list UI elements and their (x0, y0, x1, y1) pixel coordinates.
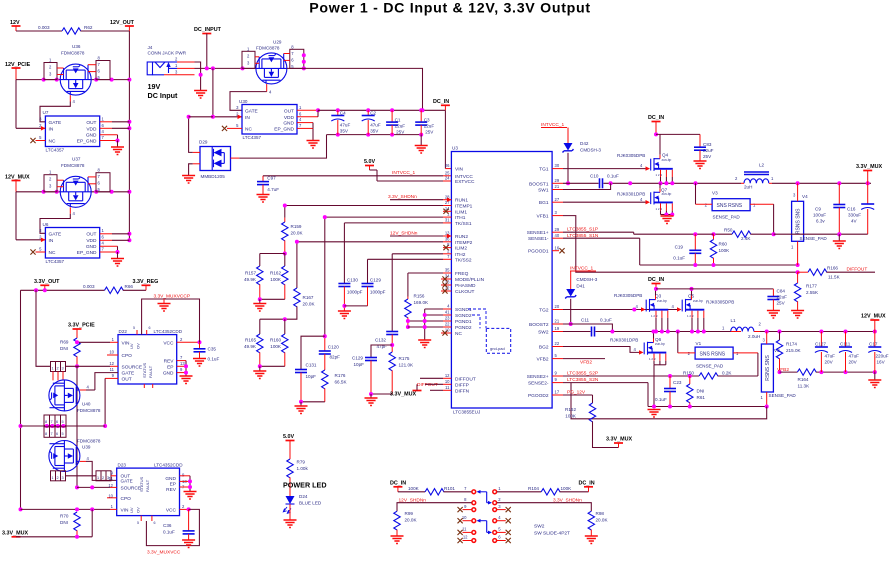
svg-text:6: 6 (56, 432, 58, 436)
ground SGND (418, 340, 431, 348)
LED D24 BLUE LED (283, 494, 322, 520)
svg-text:3.3V_OUT: 3.3V_OUT (34, 279, 60, 285)
svg-text:C3: C3 (424, 117, 430, 122)
ground on MUXVCCP wire (158, 299, 171, 311)
wire BOOST2 (563, 324, 612, 332)
svg-text:2: 2 (57, 367, 59, 371)
svg-text:ITH2: ITH2 (455, 252, 466, 258)
wire ITEMP2 from R167 (297, 241, 443, 243)
resistor R166 11.5K (798, 266, 875, 280)
svg-text:25V: 25V (396, 129, 405, 134)
svg-text:20.0K: 20.0K (291, 231, 304, 236)
svg-text:31: 31 (445, 218, 450, 223)
svg-text:SENSE_PAD: SENSE_PAD (769, 393, 797, 398)
svg-text:C16: C16 (847, 207, 856, 212)
wire R165/R160 bottoms / ground (253, 364, 285, 378)
svg-text:23: 23 (445, 316, 450, 321)
U3 right pin numbers (555, 163, 560, 394)
wire SOURCE row D23 (77, 485, 117, 489)
wire U29 drain to caps bus (287, 68, 423, 110)
U30 NC no-connect (222, 126, 242, 131)
ground U6 (111, 252, 124, 266)
svg-text:UV: UV (129, 507, 134, 513)
capacitor C2 47uF 35V (362, 110, 381, 134)
wire D29 lower to ground (189, 164, 200, 176)
svg-text:12V_SHDNn: 12V_SHDNn (390, 231, 418, 237)
wire to C83 (656, 133, 700, 135)
svg-text:20: 20 (555, 304, 560, 309)
svg-text:D29: D29 (199, 140, 208, 145)
svg-text:82pF: 82pF (330, 355, 341, 360)
power flag 5.0V (364, 159, 377, 181)
resistor R167 20.0K (285, 240, 316, 319)
wire DC_IN to U3 VIN (445, 110, 451, 168)
svg-text:LTC4352CDD: LTC4352CDD (154, 463, 183, 468)
power flag 12V_PCIE (5, 62, 31, 80)
svg-text:RSNS SNS: RSNS SNS (795, 208, 801, 234)
svg-text:3.3V_REG: 3.3V_REG (133, 279, 159, 285)
svg-text:TG2: TG2 (539, 308, 549, 314)
svg-text:R104: R104 (528, 486, 539, 491)
wire caps bottom bus (327, 134, 422, 136)
svg-text:PGOOD1: PGOOD1 (528, 249, 549, 255)
capacitor C120 82pF + R176 column (319, 215, 348, 402)
wire SW node (604, 182, 742, 184)
svg-text:C10: C10 (590, 174, 599, 179)
svg-text:100K: 100K (565, 414, 577, 419)
svg-text:SNS RSNS: SNS RSNS (700, 352, 726, 358)
capacitor C129 10pF (352, 345, 392, 394)
node VFB2 left (563, 359, 605, 366)
svg-text:35V: 35V (370, 129, 379, 134)
svg-text:12: 12 (109, 361, 114, 366)
wire TK/SS1 from C130 (344, 222, 443, 224)
svg-text:5.0V: 5.0V (283, 434, 294, 440)
svg-text:EP: EP (167, 364, 173, 370)
svg-text:41: 41 (445, 310, 450, 315)
wire U30 VDD (297, 110, 318, 117)
svg-text:35V: 35V (340, 129, 349, 134)
node LTC3855_S1P (563, 227, 634, 235)
svg-text:RUN1: RUN1 (455, 198, 468, 204)
svg-text:1: 1 (97, 476, 99, 480)
capacitor C132 47pF + R175 column (375, 254, 414, 394)
svg-text:VDD: VDD (86, 238, 97, 244)
U7 NC no-connect (30, 138, 45, 143)
svg-text:20.0K: 20.0K (596, 518, 609, 523)
resistor R150 0.2K (683, 353, 758, 379)
wire ladder vertical B (36, 290, 51, 366)
node DIFFOUT (417, 378, 443, 388)
wire BG1 to Q7 gate (563, 201, 646, 203)
svg-text:SENSE_PAD: SENSE_PAD (713, 215, 741, 220)
transistor Q5 RJK0305DPB (672, 287, 735, 334)
no-connect X on unused contacts (458, 507, 511, 543)
svg-text:19: 19 (555, 326, 560, 331)
svg-text:J4: J4 (148, 45, 153, 50)
capacitor C128 1000pF (344, 259, 385, 306)
svg-text:U29: U29 (273, 40, 282, 45)
svg-text:17: 17 (555, 390, 560, 395)
svg-text:22: 22 (555, 341, 560, 346)
svg-text:U36: U36 (72, 44, 81, 49)
wire bottom bus / ground (295, 400, 325, 414)
capacitor C11 0.1uF (581, 318, 612, 337)
svg-text:169.0K: 169.0K (414, 300, 429, 305)
svg-text:LTC3855_S1P: LTC3855_S1P (567, 227, 598, 233)
svg-text:DIFFN: DIFFN (455, 388, 470, 394)
resistor R156 169.0K (405, 273, 429, 329)
svg-text:4.7uF: 4.7uF (267, 187, 279, 192)
capacitor C97 4.7uF (257, 176, 279, 195)
svg-text:2.4K: 2.4K (741, 236, 751, 241)
capacitor C16 330uF 4V (847, 183, 874, 234)
svg-text:FDMC8878: FDMC8878 (61, 163, 85, 168)
svg-text:3.3V_MUX: 3.3V_MUX (856, 164, 882, 170)
svg-text:100K: 100K (561, 486, 573, 491)
power flag 5.0V LED (283, 434, 295, 459)
svg-text:GATE: GATE (245, 108, 258, 114)
svg-text:22: 22 (445, 322, 450, 327)
svg-text:NC: NC (49, 250, 56, 256)
node VFB2 right (777, 367, 789, 373)
wire V3 pin1 down (773, 204, 775, 234)
node dots on 12V_OUT vertical (127, 78, 131, 82)
svg-text:GND: GND (163, 371, 174, 377)
svg-text:GND: GND (165, 476, 176, 482)
resistor R174 215.0K (776, 332, 801, 375)
U40 drain pin box 8,7,6,5 (44, 415, 66, 426)
svg-text:C11: C11 (581, 318, 590, 323)
inductor L1 2.0uH (722, 318, 762, 339)
svg-text:IN: IN (245, 115, 250, 121)
wire to U30 IN (211, 68, 242, 119)
svg-text:3.3V_MUX: 3.3V_MUX (390, 392, 416, 398)
svg-text:C35: C35 (208, 347, 217, 352)
svg-text:DC_IN: DC_IN (648, 277, 664, 283)
svg-text:C23: C23 (673, 380, 682, 385)
svg-text:TK/SS2: TK/SS2 (455, 257, 472, 263)
power flag 12V (10, 20, 21, 31)
svg-text:U37: U37 (72, 157, 81, 162)
svg-text:R165: R165 (245, 338, 256, 343)
capacitor C83 22uF 25V (694, 134, 714, 168)
transistor U40 FDMC8878 (49, 380, 101, 413)
svg-text:11: 11 (109, 476, 114, 481)
svg-text:FREQ: FREQ (455, 271, 469, 277)
svg-text:C130: C130 (347, 278, 358, 283)
wire D23 REV/EP/GND tie (180, 476, 197, 499)
svg-text:66.5K: 66.5K (335, 380, 348, 385)
svg-text:12: 12 (445, 373, 450, 378)
svg-text:R150: R150 (683, 370, 694, 375)
wire DIFFN (430, 389, 443, 391)
resistor R99 20.0K (391, 511, 418, 543)
node 12V_SHDNn / wire RUN2 (390, 231, 451, 239)
svg-text:DIFFOUT: DIFFOUT (847, 267, 868, 273)
svg-text:VCC: VCC (163, 340, 174, 346)
op-amp U30 LTC4357 (236, 99, 302, 140)
svg-text:MMBD1205: MMBD1205 (201, 174, 226, 179)
svg-text:U6: U6 (43, 222, 49, 227)
power flag 3.3V_MUX at DIFFP (390, 384, 422, 397)
svg-text:21: 21 (555, 319, 560, 324)
svg-text:FAULT: FAULT (145, 479, 150, 492)
svg-text:CONN JACK PWR: CONN JACK PWR (148, 51, 187, 56)
wire R69 col down (76, 366, 78, 487)
svg-text:MODE/PLLIN: MODE/PLLIN (455, 277, 485, 283)
svg-text:CPO: CPO (122, 353, 133, 359)
svg-text:FDMC8878: FDMC8878 (61, 51, 85, 56)
svg-text:LTC3855_S1N: LTC3855_S1N (567, 233, 599, 239)
U3 left pin names (455, 167, 485, 395)
wire U37 gate to U6 (40, 214, 70, 234)
svg-text:R157: R157 (245, 271, 256, 276)
ground LED (284, 520, 297, 528)
svg-text:VCC: VCC (166, 507, 177, 513)
capacitor C17 220uF 16V (868, 332, 888, 373)
svg-text:SENSE_PAD: SENSE_PAD (800, 236, 828, 241)
wire BG2 to Q6 gate (563, 347, 639, 353)
svg-text:11: 11 (462, 527, 467, 532)
svg-text:R79: R79 (297, 460, 306, 465)
svg-text:C129: C129 (370, 278, 381, 283)
svg-text:16V: 16V (877, 360, 886, 365)
svg-text:29: 29 (555, 227, 560, 232)
wire SW to L2 (694, 181, 698, 185)
svg-text:C84: C84 (777, 289, 786, 294)
wire D29 anode up to IN node (187, 115, 213, 153)
svg-text:47uF: 47uF (370, 123, 381, 128)
svg-text:TG1: TG1 (539, 167, 549, 173)
U3 left pin numbers (445, 163, 450, 390)
svg-text:EP_GND: EP_GND (77, 138, 97, 144)
svg-text:L1: L1 (731, 318, 737, 323)
wire OUT row D23 (66, 475, 97, 477)
capacitor C4 47uF 35V (331, 110, 350, 134)
U36 pin box right 8,7,6,5 (88, 56, 110, 81)
wire SW2 node to V1 (677, 332, 679, 353)
svg-text:7: 7 (51, 420, 53, 424)
svg-text:STATUS: STATUS (142, 362, 147, 378)
svg-text:SENSE2-: SENSE2- (528, 381, 549, 387)
svg-text:12V_PCIE: 12V_PCIE (5, 62, 31, 68)
op-amp U7 LTC4357 (39, 110, 104, 153)
svg-text:PGND2: PGND2 (455, 325, 472, 331)
svg-text:4V: 4V (851, 219, 858, 224)
svg-text:GATE: GATE (49, 231, 62, 237)
U3 left pin stubs (441, 200, 451, 391)
transistor Q3 RJK0305DPB (614, 289, 670, 334)
resistor R62 0.003 (38, 25, 93, 34)
svg-text:RJK0305DPB: RJK0305DPB (706, 300, 734, 305)
ground jack (194, 91, 207, 99)
svg-text:POWER LED: POWER LED (283, 481, 327, 490)
svg-text:DC_IN: DC_IN (579, 481, 595, 487)
svg-text:12V_MUX: 12V_MUX (5, 175, 30, 181)
ground D29 (182, 176, 195, 184)
wire REV/EP/GND tie (177, 361, 193, 384)
svg-text:SW2: SW2 (538, 330, 549, 336)
svg-text:0.1uF: 0.1uF (600, 318, 612, 323)
svg-text:R166: R166 (827, 266, 838, 271)
U6 NC no-connect (30, 249, 45, 254)
svg-text:RJK0301DPB: RJK0301DPB (617, 192, 645, 197)
svg-text:SW1: SW1 (538, 188, 549, 194)
wire TG2 to Q3/Q5 gates (563, 309, 677, 311)
svg-text:BLUE LED: BLUE LED (299, 501, 322, 506)
svg-text:0.1uF: 0.1uF (163, 530, 175, 535)
svg-text:C19: C19 (675, 245, 684, 250)
wire sense2 bus (648, 405, 769, 409)
transistor U36 FDMC8878 (60, 44, 91, 95)
svg-text:R160: R160 (270, 338, 281, 343)
svg-text:LTC4357: LTC4357 (46, 259, 65, 264)
svg-text:DC_IN: DC_IN (390, 481, 406, 487)
svg-text:CMDSH-3: CMDSH-3 (576, 277, 597, 282)
U39 source pin box 1,2,3 (51, 471, 66, 481)
svg-text:REV: REV (166, 487, 177, 493)
svg-text:VIN: VIN (455, 167, 464, 173)
svg-text:NC: NC (49, 138, 56, 144)
connector J4 CONN JACK PWR (147, 45, 194, 75)
svg-text:CMDSH-3: CMDSH-3 (580, 148, 601, 153)
svg-text:R98: R98 (596, 511, 605, 516)
svg-text:CPO: CPO (121, 496, 132, 502)
svg-text:C1: C1 (395, 117, 401, 122)
op-amp U3 LTC3855EUJ box (451, 146, 552, 415)
svg-text:ITH1: ITH1 (455, 215, 466, 221)
svg-text:6: 6 (154, 521, 156, 525)
svg-text:D42: D42 (580, 141, 589, 146)
svg-text:DNI: DNI (60, 520, 68, 525)
svg-text:OUT: OUT (284, 108, 294, 114)
svg-text:2: 2 (57, 476, 59, 480)
wire D22 VIN from 3.3V_PCIE (75, 340, 118, 344)
wire TG1 to Q4 gate (563, 168, 646, 170)
svg-text:30: 30 (555, 163, 560, 168)
svg-text:10pF: 10pF (354, 362, 365, 367)
capacitor C3 22uF 25V (415, 110, 434, 134)
svg-text:NC: NC (245, 126, 252, 132)
svg-text:EP_GND: EP_GND (274, 126, 294, 132)
wire ITEMP1 from R159 (285, 205, 443, 207)
svg-text:SGND2: SGND2 (455, 313, 472, 319)
svg-text:3: 3 (62, 476, 64, 480)
wire EXTVCC (377, 180, 451, 182)
svg-text:LTC3855EUJ: LTC3855EUJ (453, 410, 480, 415)
power flag 3.3V_MUX bottom (2, 531, 28, 537)
svg-text:PGND1: PGND1 (455, 319, 472, 325)
pin stub CPO (107, 354, 118, 356)
resistor R162 100K (270, 254, 288, 300)
resistor R159 20.0K (282, 204, 304, 256)
svg-text:RJK0305DPB: RJK0305DPB (614, 293, 642, 298)
svg-text:STATUS: STATUS (139, 476, 144, 492)
ground U30 (307, 141, 320, 149)
svg-text:R162: R162 (565, 407, 576, 412)
gnd-pad (468, 309, 511, 353)
U37 gate pin 4 (70, 207, 75, 216)
svg-text:25V: 25V (425, 129, 434, 134)
svg-text:R70: R70 (60, 514, 69, 519)
svg-text:40: 40 (555, 233, 560, 238)
svg-text:GND: GND (86, 244, 97, 250)
svg-text:GATE: GATE (49, 120, 62, 126)
resistor R60 100K (710, 234, 730, 265)
svg-text:D22: D22 (119, 329, 128, 334)
svg-text:100uF: 100uF (813, 213, 826, 218)
svg-text:D24: D24 (299, 494, 308, 499)
svg-text:121.0K: 121.0K (399, 363, 414, 368)
svg-text:11: 11 (110, 367, 115, 372)
svg-text:INTVCC: INTVCC (455, 174, 473, 180)
svg-text:0.1uF: 0.1uF (208, 357, 220, 362)
wire TK/SS2 from C128 (368, 258, 444, 260)
svg-text:3.3V_PCIE: 3.3V_PCIE (68, 323, 95, 329)
op-amp D22 LTC4352CDD (109, 326, 185, 388)
svg-text:47uF: 47uF (849, 354, 860, 359)
svg-text:R162: R162 (270, 271, 281, 276)
switch SW2 contacts (462, 486, 501, 542)
wire drain bus (21, 425, 106, 427)
svg-text:FDMC8878: FDMC8878 (77, 408, 101, 413)
svg-text:22uF: 22uF (424, 123, 435, 128)
svg-text:EXTVCC: EXTVCC (455, 179, 475, 185)
resistor R164 11.3K (780, 369, 877, 388)
svg-text:OUT: OUT (86, 231, 96, 237)
label 19V DC Input (148, 82, 179, 100)
power flag 3.3V_MUX (856, 164, 882, 183)
svg-text:LTC4352CDD: LTC4352CDD (154, 329, 183, 334)
svg-text:U7: U7 (43, 110, 49, 115)
diode D42 CMDSH-3 (563, 141, 602, 185)
ground R157 (253, 304, 266, 312)
svg-text:1: 1 (52, 367, 54, 371)
svg-text:VDD: VDD (86, 126, 97, 132)
op-amp D23 LTC4352CDD (108, 463, 187, 526)
svg-text:ILIM2: ILIM2 (455, 246, 467, 252)
wire 12V_OUT vertical (128, 31, 130, 240)
wire C129/R175 bottoms / ground (365, 392, 393, 406)
svg-text:SENSE2+: SENSE2+ (527, 374, 549, 380)
svg-text:24: 24 (445, 176, 450, 181)
capacitor C111 47uF 20V (839, 332, 859, 373)
svg-text:100K: 100K (408, 486, 420, 491)
wire 3.3V_MUX row (16, 509, 92, 538)
U29 gate pin 4 (267, 84, 272, 95)
svg-text:VDD: VDD (284, 115, 295, 121)
svg-text:FDMC8878: FDMC8878 (256, 46, 280, 51)
wire row1 right / resistor R104 100K (497, 486, 589, 495)
sense V1 SNS RSNS (678, 341, 758, 369)
svg-text:INTVCC_1: INTVCC_1 (392, 170, 416, 176)
wire L1 to 12V output (760, 331, 875, 333)
svg-text:220uF: 220uF (876, 354, 889, 359)
svg-text:TK/SS1: TK/SS1 (455, 221, 472, 227)
wire INTVCC_1 to U3 (263, 175, 451, 177)
capacitor C84 22uF 25V (767, 289, 787, 319)
svg-text:SENSE_PAD: SENSE_PAD (696, 364, 724, 369)
label SW2 (534, 524, 570, 537)
inductor L2 2uH (735, 163, 774, 190)
resistor R157 49.9K (244, 254, 263, 300)
svg-text:3.3V_MUXVCCP: 3.3V_MUXVCCP (154, 294, 191, 300)
svg-text:3.3V_MUX: 3.3V_MUX (606, 437, 632, 443)
wire row1 left / resistor R101 100K (398, 486, 472, 495)
capacitor C131 10pF (295, 336, 325, 402)
svg-text:LTC4357: LTC4357 (243, 135, 262, 140)
